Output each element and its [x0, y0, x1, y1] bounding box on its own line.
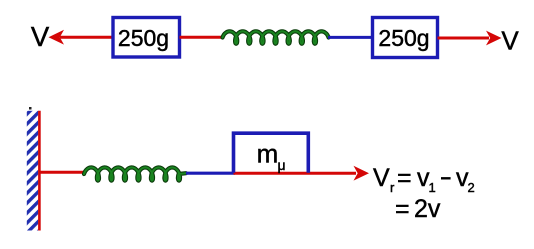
svg-text:m: m: [257, 139, 279, 169]
mass block m_mu (three sides, open bottom): [234, 133, 309, 173]
label Vr = v1 - v2: [373, 164, 436, 195]
svg-text:=: =: [395, 195, 410, 223]
svg-text:V: V: [373, 164, 390, 192]
svg-text:=: =: [397, 164, 412, 192]
wall (hatched): [27, 111, 39, 231]
wall top dot: [29, 107, 32, 110]
mass block 250g right: [373, 18, 438, 58]
wire red (wall to spring): [40, 171, 85, 174]
svg-text:1: 1: [429, 180, 436, 195]
minus sign: [441, 177, 451, 179]
wire blue (spring to block): [186, 172, 235, 175]
svg-text:r: r: [390, 180, 395, 195]
label v2 continues: [456, 164, 475, 195]
svg-text:V: V: [501, 26, 519, 56]
svg-text:250g: 250g: [378, 25, 429, 51]
svg-text:2v: 2v: [414, 195, 441, 223]
spring top (between the two blocks): [223, 31, 329, 43]
svg-text:2: 2: [468, 180, 475, 195]
wire red under block with arrow (Vr): [234, 166, 370, 181]
svg-text:μ: μ: [278, 157, 286, 173]
mass block 250g left: [113, 18, 180, 58]
wire arrow left velocity V: [49, 30, 114, 45]
svg-text:250g: 250g: [118, 25, 169, 51]
wall edge red line: [38, 111, 41, 231]
wire arrow right velocity V: [438, 31, 502, 46]
wire blue (spring to right block): [328, 36, 373, 39]
wire red (left block to spring): [180, 36, 224, 39]
spring bottom (wall to block): [84, 167, 186, 180]
svg-text:V: V: [31, 21, 50, 52]
label = 2v: [395, 195, 441, 223]
